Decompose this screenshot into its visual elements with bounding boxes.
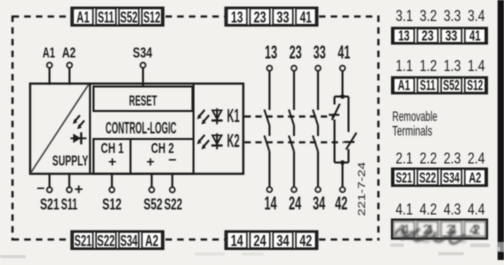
svg-text:S52: S52 bbox=[144, 196, 163, 213]
svg-text:S34: S34 bbox=[120, 233, 137, 250]
svg-text:2.3: 2.3 bbox=[444, 150, 461, 167]
svg-text:13: 13 bbox=[265, 42, 278, 63]
svg-text:A2: A2 bbox=[145, 233, 158, 250]
svg-text:K1: K1 bbox=[227, 105, 240, 126]
svg-text:24: 24 bbox=[254, 233, 267, 250]
svg-text:S34: S34 bbox=[133, 46, 152, 62]
svg-text:S52: S52 bbox=[443, 77, 460, 94]
svg-text:3.1: 3.1 bbox=[396, 8, 413, 25]
svg-text:1.4: 1.4 bbox=[468, 58, 485, 75]
svg-text:41: 41 bbox=[469, 27, 480, 44]
svg-text:1.2: 1.2 bbox=[420, 58, 437, 75]
svg-text:14: 14 bbox=[231, 233, 243, 250]
svg-text:3.3: 3.3 bbox=[444, 8, 461, 25]
svg-text:S21: S21 bbox=[74, 233, 91, 250]
svg-text:K2: K2 bbox=[227, 130, 240, 151]
svg-text:A1: A1 bbox=[43, 46, 56, 62]
svg-text:S21: S21 bbox=[40, 196, 60, 213]
svg-text:S22: S22 bbox=[164, 196, 182, 213]
svg-text:41: 41 bbox=[300, 9, 312, 26]
svg-text:+: + bbox=[108, 154, 116, 170]
svg-text:3.2: 3.2 bbox=[420, 8, 437, 25]
svg-text:23: 23 bbox=[289, 42, 302, 63]
svg-text:S52: S52 bbox=[120, 9, 138, 26]
svg-text:4.4: 4.4 bbox=[468, 202, 485, 219]
svg-text:34: 34 bbox=[313, 193, 326, 214]
svg-text:41: 41 bbox=[338, 42, 351, 63]
svg-text:33: 33 bbox=[445, 27, 457, 44]
svg-text:S22: S22 bbox=[97, 233, 115, 250]
svg-text:13: 13 bbox=[231, 9, 243, 26]
svg-text:CONTROL-LOGIC: CONTROL-LOGIC bbox=[106, 120, 177, 138]
svg-text:4.1: 4.1 bbox=[396, 202, 413, 219]
svg-text:A1: A1 bbox=[77, 9, 90, 26]
svg-text:4.3: 4.3 bbox=[444, 202, 461, 219]
svg-text:34: 34 bbox=[446, 222, 458, 239]
svg-text:Terminals: Terminals bbox=[392, 122, 432, 138]
svg-text:3.4: 3.4 bbox=[468, 8, 485, 25]
svg-text:S12: S12 bbox=[102, 196, 121, 213]
svg-text:S22: S22 bbox=[419, 170, 436, 187]
svg-text:+: + bbox=[74, 181, 83, 198]
svg-text:33: 33 bbox=[313, 42, 326, 63]
svg-text:S11: S11 bbox=[61, 196, 78, 213]
svg-text:+: + bbox=[146, 154, 154, 170]
svg-text:23: 23 bbox=[254, 9, 267, 26]
svg-text:S11: S11 bbox=[420, 77, 436, 94]
svg-text:2.2: 2.2 bbox=[420, 150, 437, 167]
svg-text:−: − bbox=[37, 180, 45, 196]
svg-text:13: 13 bbox=[398, 27, 409, 44]
svg-text:S21: S21 bbox=[396, 170, 412, 187]
svg-text:S34: S34 bbox=[443, 170, 460, 187]
svg-text:S12: S12 bbox=[143, 9, 160, 26]
svg-text:A2: A2 bbox=[469, 170, 482, 187]
svg-text:2.4: 2.4 bbox=[468, 150, 485, 167]
svg-text:RESET: RESET bbox=[129, 92, 157, 109]
svg-text:42: 42 bbox=[300, 233, 313, 250]
svg-text:33: 33 bbox=[277, 9, 290, 26]
svg-text:42: 42 bbox=[335, 193, 348, 214]
svg-text:4.2: 4.2 bbox=[420, 202, 437, 219]
svg-text:23: 23 bbox=[422, 27, 434, 44]
svg-text:24: 24 bbox=[289, 193, 302, 214]
svg-text:S11: S11 bbox=[98, 9, 114, 26]
svg-text:14: 14 bbox=[264, 193, 277, 214]
svg-text:−: − bbox=[168, 152, 176, 168]
svg-text:221-7-24: 221-7-24 bbox=[357, 162, 368, 216]
svg-text:A2: A2 bbox=[62, 46, 76, 62]
svg-text:2.1: 2.1 bbox=[396, 150, 413, 167]
svg-text:1.3: 1.3 bbox=[444, 58, 461, 75]
svg-text:34: 34 bbox=[277, 233, 290, 250]
svg-text:S12: S12 bbox=[467, 77, 483, 94]
svg-text:1.1: 1.1 bbox=[396, 58, 413, 75]
svg-text:A1: A1 bbox=[398, 77, 410, 94]
svg-text:SUPPLY: SUPPLY bbox=[52, 153, 88, 169]
